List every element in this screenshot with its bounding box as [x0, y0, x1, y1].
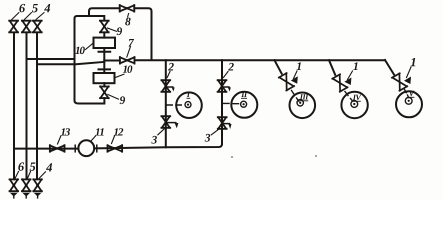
label 11	[95, 128, 103, 135]
label 1 (branch C)	[411, 58, 416, 66]
wire: stem valve9 to cylinder 10 upper	[103, 33, 105, 38]
speck	[231, 156, 233, 158]
wire: dashed tap to gauge I	[166, 104, 182, 106]
wire: supply line 1 vertical	[13, 33, 15, 180]
joint tick right of pump 11	[96, 145, 98, 152]
sprayer V outer circle	[396, 91, 422, 117]
label 4 leader (bottom)	[39, 172, 46, 179]
valve 7	[120, 57, 135, 64]
label 1 (branch A)	[297, 62, 301, 70]
valve 6 (top charging)	[9, 21, 18, 33]
wire: main bus from stem through valve 7 junction	[104, 60, 119, 62]
label 5 (bottom)	[30, 163, 36, 171]
sprayer label V	[409, 91, 414, 96]
sprayer III outer circle	[290, 93, 316, 119]
label 6 (bottom)	[18, 162, 24, 170]
valve 2 handle hook (branch 2)	[223, 86, 229, 88]
label 11 leader	[91, 136, 96, 142]
valve 6 (bottom drain)	[10, 179, 19, 198]
wire: riser to top loop	[89, 8, 120, 16]
label 12 leader	[112, 136, 115, 144]
wire: supply line 2 vertical	[26, 33, 28, 180]
label 13	[61, 128, 70, 135]
label 10 (lower)	[123, 65, 133, 72]
sprayer label III	[300, 94, 309, 99]
label 4 (bottom)	[46, 163, 52, 171]
label 7 leader	[127, 47, 131, 58]
label 6 leader (bottom)	[15, 172, 19, 179]
wire: dashed to sprayer IV	[345, 92, 353, 102]
wire: spray branch B diagonal	[329, 60, 335, 75]
speck	[315, 155, 317, 157]
wire: main bus to right	[135, 59, 385, 61]
wire: stem between cylinders with joint ticks	[99, 48, 111, 73]
label 3 (branch 1)	[151, 136, 157, 144]
valve 5 (top charging)	[22, 21, 31, 33]
label 2 leader (branch 2)	[224, 72, 229, 78]
label 6 (top)	[19, 4, 25, 12]
label 9 leader (lower)	[108, 95, 119, 100]
wire: branch 1 vertical	[165, 60, 167, 147]
valve 8	[120, 5, 135, 12]
label 12	[114, 128, 123, 135]
label 1 leader (branch C)	[407, 67, 412, 78]
valve 1 (branch A)	[279, 73, 294, 90]
valve 13	[50, 145, 65, 152]
pump 11 circle	[78, 140, 94, 156]
label 9 (upper)	[117, 27, 122, 35]
valve 2 handle hook	[167, 86, 173, 88]
wire: dashed to sprayer III	[292, 91, 299, 102]
label 4 leader	[36, 13, 44, 20]
gauge II outer circle	[231, 92, 257, 118]
valve 9 (lower)	[100, 87, 109, 99]
valve 3 (branch 1)	[161, 116, 170, 128]
valve 1 arrow flag (branch C)	[404, 77, 411, 85]
label 13 leader	[58, 136, 61, 144]
valve 1 arrow flag (branch A)	[291, 76, 298, 84]
label 5 leader	[24, 13, 31, 20]
sprayer IV inner circle	[351, 101, 358, 108]
valve 4 (bottom drain)	[33, 179, 42, 198]
wire: dashed to sprayer V	[405, 90, 409, 98]
wire: block bottom loop	[75, 98, 105, 104]
valve 2 (branch 2)	[218, 80, 227, 92]
label 3 (branch 2)	[205, 134, 211, 142]
label 9 leader (upper)	[108, 28, 117, 31]
valve 1 arrow flag (branch B)	[344, 78, 351, 86]
wire: branch 2 vertical	[221, 60, 223, 144]
wire: supply line 3 vertical	[36, 33, 38, 180]
wire: spray branch A diagonal	[275, 60, 282, 73]
sprayer IV outer circle	[341, 92, 367, 118]
label 3 leader (branch 2)	[211, 129, 219, 135]
gauge label I	[187, 92, 190, 97]
wire: bus end bend into branch C	[385, 60, 395, 76]
label 1 (branch B)	[353, 62, 357, 70]
label 5 (top)	[32, 4, 38, 12]
gauge label II	[241, 92, 247, 97]
valve 9 (upper)	[100, 21, 109, 33]
gauge I inner circle	[185, 102, 191, 108]
wire: top loop right side down to main bus	[134, 8, 151, 60]
joint tick left of pump 11	[74, 145, 76, 152]
label 2 (branch 2)	[228, 63, 234, 71]
wire: line A from supply 2 to block loop	[27, 58, 75, 60]
valve 5 (bottom drain)	[22, 179, 31, 198]
label 10 (upper)	[75, 47, 85, 54]
valve 3 handle hook (branch 2)	[223, 123, 229, 125]
label 5 leader (bottom)	[27, 172, 30, 179]
cylinder battery 10 (lower rectangle)	[94, 73, 115, 83]
valve 1 (branch C)	[392, 73, 407, 90]
label 10 leader (lower)	[115, 74, 124, 78]
sprayer label IV	[353, 95, 362, 100]
gauge II inner circle	[241, 101, 247, 107]
sprayer III inner circle	[297, 100, 303, 106]
label 4 (top)	[44, 4, 50, 12]
label 2 leader (branch 1)	[167, 72, 170, 78]
valve 4 (top charging)	[33, 21, 42, 33]
label 8 leader	[128, 14, 129, 18]
label 6 leader	[12, 13, 19, 20]
wire: stem to lower valve 9	[103, 83, 105, 86]
label 1 leader (branch A)	[294, 71, 298, 79]
valve 12	[108, 145, 123, 152]
label 1 leader (branch B)	[348, 71, 353, 80]
wire: block left loop vertical	[75, 16, 105, 101]
valve 1 (branch B)	[332, 74, 347, 91]
valve 2 (branch 1)	[161, 80, 170, 92]
wire: dashed tap to gauge II	[222, 102, 239, 104]
label 8	[125, 18, 130, 26]
sprayer V inner circle	[405, 97, 412, 104]
cylinder battery 10 (upper rectangle)	[94, 38, 116, 48]
valve 3 handle hook	[167, 122, 176, 124]
wire: line B from supply 3 to cylinder stem	[37, 62, 104, 64]
label 9 (lower)	[120, 96, 125, 104]
gauge I outer circle	[176, 92, 202, 118]
label 2 (branch 1)	[168, 63, 174, 71]
label 3 leader (branch 1)	[158, 129, 165, 135]
label 7	[128, 39, 134, 47]
label 10 leader (upper)	[86, 43, 94, 50]
wire: bottom bus	[14, 144, 222, 149]
valve 3 (branch 2)	[218, 117, 227, 129]
